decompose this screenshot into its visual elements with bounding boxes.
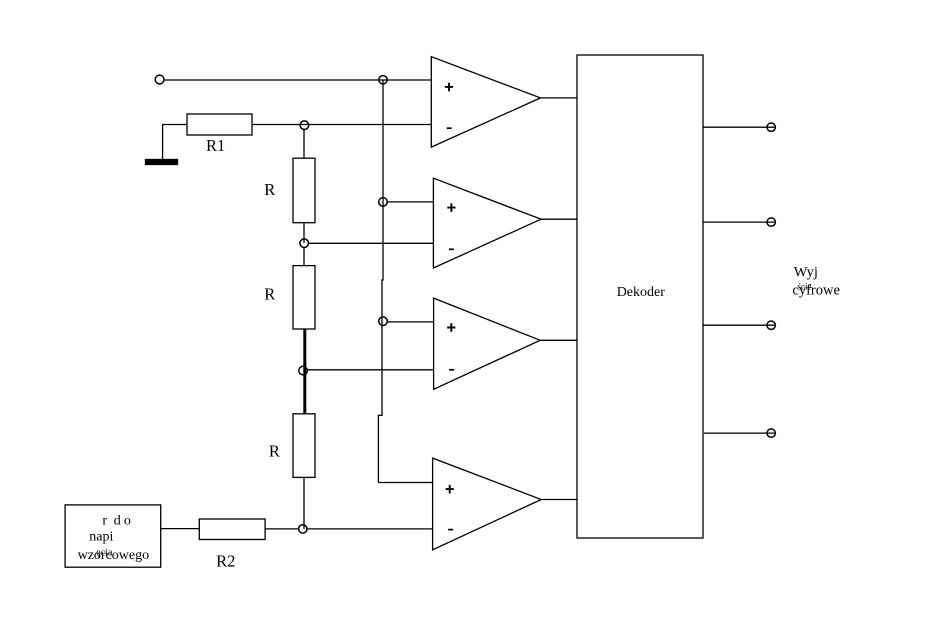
wire: decoder output bit 2	[703, 221, 775, 223]
wire: junction 2 down to resistor R middle top	[303, 247, 305, 266]
svg-text:R1: R1	[206, 136, 225, 155]
wire: bus junction 3 to comparator 3 + input	[387, 321, 434, 323]
wire: R1 right to comparator 1 - input	[252, 124, 432, 126]
decoder block	[577, 55, 703, 538]
wire: R2 right to junction 4	[265, 528, 299, 530]
node: bus junction 2	[379, 198, 388, 207]
output terminal 2	[767, 218, 775, 226]
svg-text:napi: napi	[89, 529, 113, 544]
wire: junction 3 to comparator 3 - input	[307, 369, 434, 371]
wire: decoder output bit 4	[704, 432, 775, 434]
wire: decoder output bit 3	[703, 324, 775, 326]
node: bus junction 3	[379, 317, 388, 326]
resistor R (upper)	[293, 158, 315, 223]
resistor R (lower)	[293, 414, 315, 478]
comparator U3	[434, 298, 541, 389]
node: ladder junction 1	[300, 121, 309, 130]
wire: reference source to R2	[161, 528, 200, 530]
svg-text:R: R	[264, 284, 275, 303]
svg-text:Wyj: Wyj	[794, 265, 818, 281]
comparator U3 - pin label	[449, 369, 454, 371]
comparator U4	[433, 458, 542, 550]
output terminal 1	[767, 123, 775, 131]
resistor R1	[187, 114, 252, 135]
comparator U1 + pin label	[445, 83, 453, 92]
wire: input terminal to comparator 1 + input	[164, 79, 431, 81]
wire: junction 4 to comparator 4 - input	[307, 528, 433, 530]
wire: resistor R bottom to junction 2	[303, 223, 305, 243]
comparator U4 - pin label	[448, 529, 453, 531]
wire: comparator 2 output to decoder	[541, 218, 577, 220]
svg-text:cyfrowe: cyfrowe	[792, 283, 840, 299]
node: ladder junction 4	[299, 525, 307, 533]
svg-text:R2: R2	[216, 551, 235, 570]
comparator U2 - pin label	[449, 248, 454, 250]
wire: comparator 4 output to decoder	[541, 499, 577, 501]
output terminal 4	[767, 429, 775, 437]
svg-text:wzorcowego: wzorcowego	[78, 548, 150, 563]
node: bus tap at top wire	[379, 76, 387, 84]
resistor R2	[199, 519, 265, 540]
wire: junction 2 to comparator 2 - input	[308, 242, 434, 244]
bus wire: vertical from top tap down with jogs to comparator 4 + input	[378, 80, 383, 483]
comparator U1 - pin label	[447, 127, 452, 129]
node: ladder junction 3	[299, 366, 308, 375]
svg-text:r: r	[102, 514, 107, 529]
ground	[146, 160, 178, 165]
svg-text:Dekoder: Dekoder	[617, 285, 666, 300]
reference voltage source box	[65, 505, 161, 567]
wire: decoder output bit 1	[703, 126, 775, 128]
comparator U1	[431, 57, 540, 147]
svg-text:R: R	[269, 442, 280, 461]
comparator U4 + pin label	[446, 485, 454, 494]
wire: ground lead to R1 left	[163, 125, 187, 160]
input terminal	[155, 75, 164, 84]
svg-text:R: R	[264, 180, 275, 199]
svg-text:d: d	[114, 514, 121, 529]
wire: comparator 1 output to decoder	[541, 97, 578, 99]
wire: resistor lower bottom to junction 4	[303, 477, 305, 529]
resistor R (middle)	[293, 266, 315, 329]
wire: bus junction 2 to comparator 2 + input	[387, 201, 434, 203]
node: ladder junction 2	[300, 239, 309, 248]
comparator U2 + pin label	[447, 203, 455, 212]
wire: bus bottom to comparator 4 + input	[378, 482, 432, 484]
wire (thick) : resistor middle bottom through junction 3 to resistor lower top	[303, 329, 306, 414]
output terminal 3	[767, 321, 775, 329]
svg-text:o: o	[124, 514, 131, 529]
wire: comparator 3 output to decoder	[540, 339, 577, 341]
wire: junction 1 down to resistor R top	[303, 129, 305, 158]
comparator U2	[433, 178, 541, 268]
comparator U3 + pin label	[447, 323, 455, 332]
